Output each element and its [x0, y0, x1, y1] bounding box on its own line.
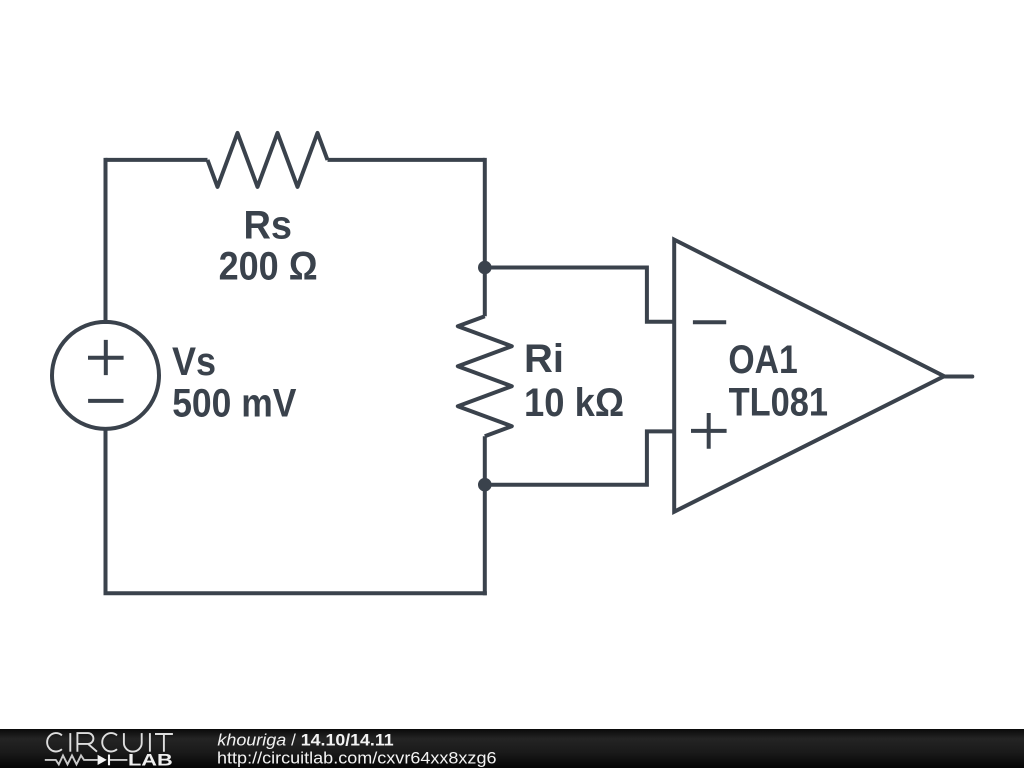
vs plus sign — [88, 340, 124, 375]
svg-text:http://circuitlab.com/cxvr64xx: http://circuitlab.com/cxvr64xx8xzg6 — [217, 749, 497, 768]
svg-text:14.10/14.11: 14.10/14.11 — [301, 731, 394, 750]
svg-text:200 Ω: 200 Ω — [219, 244, 318, 288]
svg-text:Ri: Ri — [524, 337, 564, 381]
svg-text:10 kΩ: 10 kΩ — [524, 381, 624, 425]
wire right vertical to node A — [483, 158, 487, 268]
op-amp output wire — [944, 375, 972, 379]
resistor Rs — [208, 133, 328, 187]
svg-text:/: / — [291, 731, 296, 750]
svg-text:TL081: TL081 — [729, 380, 828, 424]
op-amp plus input symbol — [691, 413, 727, 449]
wire mid vertical below node B — [483, 485, 487, 596]
svg-text:khouriga: khouriga — [217, 731, 286, 750]
resistor Ri lead top — [483, 268, 487, 317]
logo diode triangle — [98, 755, 107, 765]
wire bottom horizontal — [104, 591, 487, 595]
voltage source Vs — [52, 322, 159, 429]
wire source bottom vertical — [104, 427, 108, 593]
vs minus sign — [88, 399, 123, 403]
node B junction dot — [478, 478, 492, 492]
wire node A to inverting input — [485, 268, 674, 322]
wire left vertical down to source — [104, 158, 108, 324]
svg-text:500 mV: 500 mV — [172, 381, 297, 425]
svg-text:Vs: Vs — [172, 340, 216, 384]
resistor Ri lead bottom — [483, 436, 487, 485]
op-amp OA1 — [674, 240, 944, 512]
node A junction dot — [478, 261, 492, 275]
op-amp minus input symbol — [693, 320, 726, 324]
logo CIRCUIT letters — [47, 733, 173, 752]
wire top-left horizontal — [106, 158, 208, 162]
resistor Ri — [458, 316, 512, 436]
svg-text:OA1: OA1 — [728, 338, 797, 382]
svg-text:Rs: Rs — [244, 203, 293, 247]
wire node B to non-inverting input — [485, 431, 674, 484]
logo resistor-diode squiggle — [45, 755, 128, 766]
wire top-right horizontal — [328, 158, 485, 162]
svg-text:LAB: LAB — [128, 752, 173, 768]
footer bar — [0, 729, 1024, 768]
